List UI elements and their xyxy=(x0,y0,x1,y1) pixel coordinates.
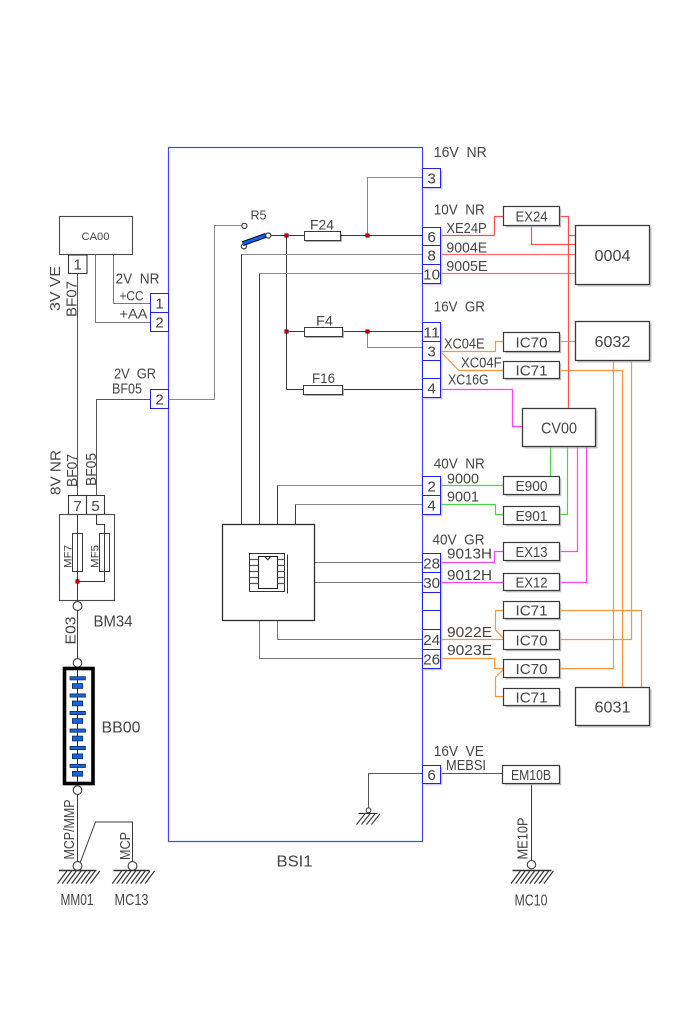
IC notch xyxy=(265,557,271,560)
svg-text:9022E: 9022E xyxy=(447,624,492,641)
wire 9022E (orange) pin24 fork xyxy=(441,611,504,640)
BSI pin 4 40V NR (right) xyxy=(423,496,441,515)
wire CV00 to EX13 (magenta) xyxy=(560,447,578,552)
wire EX24 bottom to 0004 (red) xyxy=(532,226,576,245)
svg-text:IC70: IC70 xyxy=(516,661,548,678)
wire XC16G (magenta) pin4 to CV00 xyxy=(441,390,523,427)
svg-text:IC70: IC70 xyxy=(516,335,548,352)
BSI pin 6 (right) xyxy=(423,228,441,246)
wire 9004E (red) xyxy=(441,254,576,256)
wire F4 branch down to pin 3 (16V GR) xyxy=(368,334,423,348)
connector EM10B xyxy=(503,766,560,784)
svg-text:6032: 6032 xyxy=(595,334,631,351)
svg-text:9023E: 9023E xyxy=(447,642,492,659)
ground MC10 symbol xyxy=(511,871,553,884)
svg-text:EX24: EX24 xyxy=(516,209,548,226)
svg-text:24: 24 xyxy=(423,632,440,649)
battery cells xyxy=(70,677,85,777)
component 6032 xyxy=(576,322,650,361)
svg-text:IC71: IC71 xyxy=(516,603,548,620)
ground MC13 symbol xyxy=(112,871,154,884)
svg-text:6: 6 xyxy=(427,229,436,246)
CPU inner frame xyxy=(250,554,285,592)
wire IC71 down to 6031 (orange) xyxy=(560,371,623,688)
junction dot in BM34 xyxy=(76,580,80,584)
svg-text:E03: E03 xyxy=(63,617,80,645)
connector E901 xyxy=(504,507,560,525)
BSI pin 8 (right) xyxy=(423,246,441,265)
wire XE24P (red) pin6 to EX24 xyxy=(441,217,504,236)
svg-text:IC71: IC71 xyxy=(516,690,548,707)
svg-text:XC04F: XC04F xyxy=(461,354,502,371)
connector EX12 xyxy=(504,574,560,591)
wire 9013H (magenta) pin28 to EX13 xyxy=(441,552,504,563)
svg-text:BSI1: BSI1 xyxy=(277,854,313,871)
svg-text:MF7: MF7 xyxy=(63,545,75,568)
wire pin 10 to CPU xyxy=(260,273,423,275)
wire pin7 to MF7 xyxy=(77,515,79,534)
junction dot left of F24 xyxy=(285,234,289,238)
connector IC70 b xyxy=(504,660,560,678)
svg-text:XC16G: XC16G xyxy=(448,372,489,389)
wire CV00 to E900 (green) xyxy=(550,447,552,477)
connector IC71 b xyxy=(504,689,560,706)
svg-text:9012H: 9012H xyxy=(447,567,492,584)
svg-text:8: 8 xyxy=(427,247,436,264)
svg-text:MM01: MM01 xyxy=(61,892,94,909)
svg-text:1: 1 xyxy=(74,257,82,274)
svg-text:XC04E: XC04E xyxy=(444,335,485,352)
IC pins xyxy=(250,560,285,584)
wire pin 4 (40V NR) to CPU xyxy=(296,504,423,506)
fuse MF7 xyxy=(73,534,83,572)
BM34 box xyxy=(60,515,115,601)
wire E03 xyxy=(77,610,79,658)
svg-text:EX12: EX12 xyxy=(516,575,548,592)
svg-text:E900: E900 xyxy=(516,478,548,495)
BM34 pin 5 box xyxy=(87,496,105,515)
svg-text:9005E: 9005E xyxy=(446,258,487,275)
junction dot left of F4 xyxy=(285,330,289,334)
wire 9012H (magenta) pin30 to EX12 xyxy=(441,582,504,584)
BSI pin 28 (right) xyxy=(423,554,441,573)
svg-text:EM10B: EM10B xyxy=(511,767,551,784)
internal ground terminal circle xyxy=(366,808,371,813)
battery top terminal circle xyxy=(73,659,82,668)
BSI pin 30 (right) xyxy=(423,573,441,593)
svg-text:9004E: 9004E xyxy=(446,239,487,256)
svg-text:F24: F24 xyxy=(310,217,334,233)
svg-text:0004: 0004 xyxy=(595,248,631,265)
svg-text:4: 4 xyxy=(427,497,436,514)
BSI pin 26 (right) xyxy=(423,650,441,669)
svg-text:BF07: BF07 xyxy=(64,454,81,487)
svg-text:CV00: CV00 xyxy=(541,420,577,437)
wire +AA from CA00 to BSI pin 2 xyxy=(96,255,151,323)
wire MF7 down + MF5 join xyxy=(78,572,105,601)
BSI1 control unit boundary xyxy=(169,148,423,842)
connector EX13 xyxy=(504,543,560,561)
wire pin 2 (40V NR) to CPU xyxy=(278,485,423,487)
connector IC70 a xyxy=(504,631,560,650)
svg-text:2: 2 xyxy=(427,478,436,495)
ground MM01 symbol xyxy=(58,871,100,884)
BSI pin 3 16V NR (right) xyxy=(423,169,441,188)
ground MM01 terminal circle xyxy=(73,862,82,871)
BSI pin 6 16V VE (right) xyxy=(423,766,441,784)
svg-text:MF5: MF5 xyxy=(90,545,102,568)
junction dot right of F24 xyxy=(366,234,370,238)
svg-text:3: 3 xyxy=(427,170,436,187)
BSI pin 10 (right) xyxy=(423,265,441,284)
wire F24 to pin 6 xyxy=(341,235,423,237)
battery internal wire xyxy=(77,670,79,783)
BSI pin 24 (right) xyxy=(423,630,441,650)
wire R5 to F24 xyxy=(271,235,305,237)
svg-text:28: 28 xyxy=(423,555,440,572)
svg-text:IC71: IC71 xyxy=(516,363,548,380)
wire 6032 to IC70 b (orange) xyxy=(560,361,614,669)
component 0004 xyxy=(576,226,650,285)
wire EX24 to 0004 and down to CV00 (red) xyxy=(560,217,576,409)
svg-text:7: 7 xyxy=(73,498,81,515)
connector IC71 a xyxy=(504,602,560,619)
wire pin6 VE to EM10B xyxy=(441,773,503,775)
wire pin 3 branch (16V NR) xyxy=(368,178,423,234)
svg-text:R5: R5 xyxy=(251,208,267,223)
wire 9000 (green) pin2 to E900 xyxy=(441,485,504,487)
ground MC10 terminal circle xyxy=(527,861,535,869)
svg-text:16V GR: 16V GR xyxy=(434,299,485,316)
wire BF05 inside BSI to R5 xyxy=(169,226,242,400)
svg-text:+CC: +CC xyxy=(120,288,144,304)
battery bottom terminal circle xyxy=(73,786,82,795)
wire pin 8 to CPU xyxy=(242,254,423,256)
wire BF05 from BSI left pin 2 down to BM34 pin 5 xyxy=(97,400,151,496)
IC chip body xyxy=(259,557,278,589)
svg-text:MC13: MC13 xyxy=(115,892,149,909)
svg-text:CA00: CA00 xyxy=(82,231,110,243)
battery BB00 box xyxy=(65,669,94,784)
svg-text:2: 2 xyxy=(155,315,163,332)
BSI pin 2 40V NR (right) xyxy=(423,477,441,496)
wire CV00 to E901 (green) xyxy=(560,447,568,515)
wire XC04F (orange) pin3 to IC71 xyxy=(441,352,504,371)
CPU (computer) box xyxy=(223,525,315,621)
svg-text:MCP: MCP xyxy=(117,832,134,860)
svg-text:26: 26 xyxy=(423,651,440,668)
svg-text:30: 30 xyxy=(423,575,440,592)
wire ME10P EM10B down to ground xyxy=(531,784,533,861)
svg-text:1: 1 xyxy=(155,296,163,313)
wire MCP/MMP xyxy=(77,794,79,861)
svg-text:9000: 9000 xyxy=(447,471,479,488)
wire CPU to pin 24 xyxy=(278,621,423,640)
svg-text:BF05: BF05 xyxy=(83,453,100,486)
wire CV00 to EX12 (magenta) xyxy=(560,447,587,583)
wire 9001 (green) pin4 to E901 xyxy=(441,505,504,515)
svg-text:16V NR: 16V NR xyxy=(434,144,487,161)
svg-text:10: 10 xyxy=(423,266,440,283)
svg-text:4: 4 xyxy=(427,380,436,397)
svg-text:MEBSI: MEBSI xyxy=(446,757,486,774)
svg-text:10V NR: 10V NR xyxy=(434,202,485,219)
wire 6032 to IC70 a (orange) xyxy=(560,361,632,640)
fuse MF5 xyxy=(100,534,110,572)
wire CPU to pin 28 xyxy=(315,562,423,564)
svg-text:BM34: BM34 xyxy=(94,614,133,631)
svg-text:5: 5 xyxy=(91,498,99,515)
svg-text:BF07: BF07 xyxy=(64,281,81,317)
connector IC71 upper xyxy=(504,362,560,379)
svg-text:2: 2 xyxy=(155,392,163,409)
svg-text:EX13: EX13 xyxy=(516,544,548,561)
BSI pin 4 16V GR (right) xyxy=(423,379,441,398)
BSI pin 1 (left, +CC) xyxy=(151,294,169,313)
BSI pin spare c (right) xyxy=(423,611,441,630)
svg-text:BF05: BF05 xyxy=(112,381,142,398)
BM34 output terminal circle xyxy=(73,602,82,611)
wire +CC from CA00 to BSI pin 1 xyxy=(114,255,151,304)
svg-text:IC70: IC70 xyxy=(516,633,548,650)
connector E900 xyxy=(504,477,560,495)
svg-text:E901: E901 xyxy=(516,508,548,525)
svg-text:9001: 9001 xyxy=(447,488,479,505)
svg-text:BB00: BB00 xyxy=(102,720,141,737)
wire IC70 to 6032 (orange) xyxy=(560,341,576,343)
wire CPU to pin 30 xyxy=(315,582,423,584)
wire 16V VE pin 6 to internal ground xyxy=(369,774,423,808)
svg-text:XE24P: XE24P xyxy=(446,220,486,237)
connector EX24 xyxy=(504,207,560,226)
svg-text:9013H: 9013H xyxy=(447,546,492,563)
component CV00 xyxy=(523,409,596,447)
ground MC13 terminal circle xyxy=(128,862,137,871)
svg-text:F16: F16 xyxy=(312,370,335,386)
svg-text:11: 11 xyxy=(423,324,440,341)
svg-text:8V NR: 8V NR xyxy=(48,450,65,495)
svg-text:6031: 6031 xyxy=(595,699,631,716)
svg-text:6: 6 xyxy=(427,767,436,784)
wire CPU to pin 26 xyxy=(260,621,423,659)
wire pin5 jog to MF5 xyxy=(97,515,105,534)
BSI pin 3 16V GR (right) xyxy=(423,342,441,361)
svg-text:3V VE: 3V VE xyxy=(47,266,64,311)
BSI pin 2 (left, +AA) xyxy=(151,313,169,332)
internal chassis ground symbol xyxy=(357,813,381,824)
svg-text:F4: F4 xyxy=(316,313,333,329)
BSI pin 11 (right) xyxy=(423,323,441,342)
svg-text:3: 3 xyxy=(427,343,436,360)
BSI pin 2 (left, BF05) xyxy=(151,390,169,409)
BSI pin spare a (right) xyxy=(423,361,441,379)
junction dot right of F4 xyxy=(366,330,370,334)
svg-text:+AA: +AA xyxy=(120,306,149,322)
wire XC04E (orange) pin3 to IC70 xyxy=(441,342,504,352)
BM34 pin 7 box xyxy=(69,496,87,515)
component 6031 xyxy=(576,688,650,726)
CA00 box xyxy=(60,217,133,255)
wire 9023E (orange) pin26 fork xyxy=(441,659,504,697)
connector IC70 upper xyxy=(504,333,560,352)
wire MCP diagonal to MC13 xyxy=(80,822,132,863)
wire BF07 from CA00 pin 1 down to BM34 pin 7 xyxy=(77,274,79,496)
svg-text:MC10: MC10 xyxy=(515,893,548,910)
feed bus vertical xyxy=(286,236,288,390)
BSI pin spare b (right) xyxy=(423,593,441,611)
svg-text:MCP/MMP: MCP/MMP xyxy=(61,800,78,860)
svg-text:2V NR: 2V NR xyxy=(116,271,160,288)
svg-text:ME10P: ME10P xyxy=(515,818,532,860)
wire 9005E (red) xyxy=(441,273,576,275)
wire IC71 a to 6031 (orange) xyxy=(560,611,642,688)
CA00 pin 1 box xyxy=(69,255,88,274)
